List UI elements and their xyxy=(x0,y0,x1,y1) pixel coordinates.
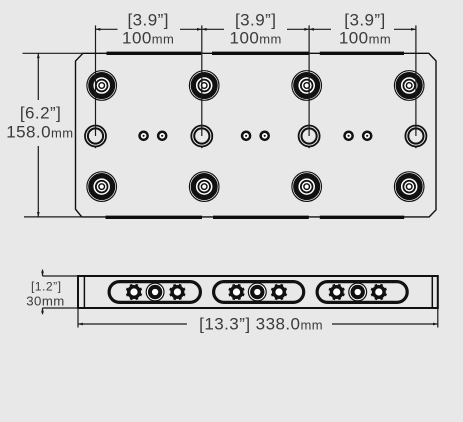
extension line col 1 xyxy=(95,25,97,136)
slot 1 left gear xyxy=(126,284,142,300)
left dimension 158mm: extension lines xyxy=(23,52,84,54)
big circle r1c3 xyxy=(292,71,322,101)
top edge gasket strip 1 xyxy=(107,52,202,55)
small hole pair 2 xyxy=(242,132,250,140)
big circle r3c1 xyxy=(87,172,117,202)
big circle r3c2 xyxy=(189,172,219,202)
svg-text:100mm: 100mm xyxy=(122,29,174,48)
svg-text:[3.9”]: [3.9”] xyxy=(344,11,385,30)
big circle r1c4 xyxy=(394,71,424,101)
slot 2 xyxy=(214,282,304,303)
338mm dimension extension lines xyxy=(77,308,79,328)
30mm dimension extension lines xyxy=(43,275,79,277)
slot 3 right gear xyxy=(371,284,387,300)
small hole pair 1 xyxy=(140,132,148,140)
svg-text:[3.9”]: [3.9”] xyxy=(235,11,276,30)
bottom edge gasket strip 1 xyxy=(106,216,203,219)
extension line col 3 xyxy=(308,25,310,136)
slot 3 xyxy=(317,282,407,303)
slot 3 washer xyxy=(349,283,367,301)
left dimension 158mm: dimension line xyxy=(37,53,39,100)
bottom edge gasket strip 2 xyxy=(213,216,309,219)
dimension line segment 2 (100mm) xyxy=(202,28,309,30)
slot 3 left gear xyxy=(328,284,344,300)
small hole pair 3 xyxy=(345,132,353,140)
slot 2 washer xyxy=(248,283,266,301)
counterbore ring c3 xyxy=(299,126,320,149)
right end chamfer line xyxy=(431,276,433,308)
30mm dimension line with outside arrows xyxy=(42,270,44,277)
slot 1 washer xyxy=(146,283,164,301)
top edge gasket strip 2 xyxy=(212,52,309,55)
plate outline (chamfered octagon) xyxy=(76,53,437,217)
top edge gasket strip 3 xyxy=(320,52,404,55)
svg-text:[13.3”] 338.0mm: [13.3”] 338.0mm xyxy=(199,315,323,334)
svg-text:30mm: 30mm xyxy=(26,294,64,309)
svg-text:100mm: 100mm xyxy=(230,29,282,48)
svg-text:100mm: 100mm xyxy=(339,29,391,48)
slot 1 xyxy=(109,282,200,303)
extension line col 4 xyxy=(415,25,417,136)
counterbore ring c4 xyxy=(405,126,426,149)
big circle r3c4 xyxy=(394,172,424,202)
svg-text:[6.2”]: [6.2”] xyxy=(20,103,61,122)
bottom edge gasket strip 3 xyxy=(320,216,404,219)
extension line col 2 xyxy=(201,25,203,136)
slot 2 left gear xyxy=(228,284,244,300)
svg-text:[3.9”]: [3.9”] xyxy=(127,11,168,30)
dimension line segment 3 (100mm) xyxy=(309,28,416,30)
big circle r1c2 xyxy=(189,71,219,101)
dimension line segment 1 (100mm) xyxy=(96,28,202,30)
counterbore ring c2 xyxy=(191,126,212,149)
svg-text:[1.2”]: [1.2”] xyxy=(31,279,61,293)
side view body xyxy=(78,276,438,308)
counterbore ring c1 xyxy=(85,126,106,149)
svg-text:158.0mm: 158.0mm xyxy=(6,122,73,141)
big circle r3c3 xyxy=(292,172,322,202)
left end chamfer line xyxy=(83,276,85,308)
338mm dimension line xyxy=(78,323,187,325)
slot 2 right gear xyxy=(271,284,287,300)
big circle r1c1 xyxy=(87,71,117,101)
slot 1 right gear xyxy=(169,284,185,300)
